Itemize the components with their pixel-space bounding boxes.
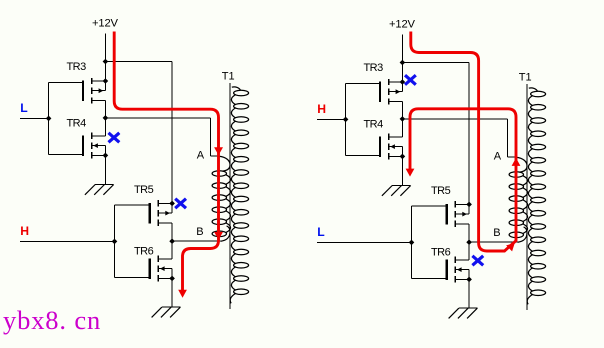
transformer T1 secondary winding (right)	[527, 88, 545, 304]
svg-text:+12V: +12V	[92, 18, 119, 30]
arrow current at B curve (right)	[506, 243, 515, 252]
arrow current into A (left)	[214, 147, 223, 155]
node gate junction TR5/TR6 (left)	[112, 239, 118, 245]
wire TR6 drain to node B (right)	[468, 242, 470, 260]
svg-text:B: B	[196, 226, 203, 238]
wire node B to winding (left)	[172, 240, 221, 242]
transformer T1 primary winding (right)	[509, 157, 527, 242]
svg-text:A: A	[197, 150, 205, 162]
wire TR6 source to ground (left)	[171, 279, 173, 307]
wire L input (left)	[20, 117, 49, 119]
arrow current to TR4 (right)	[406, 169, 415, 177]
mark X on TR5 (left)	[176, 200, 184, 207]
label TR6 (right)	[431, 247, 451, 259]
transistor TR4 (left)	[83, 133, 108, 159]
transistor TR3 (right)	[380, 79, 405, 105]
node +12V (right)	[389, 19, 416, 31]
wire TR3 source to node (left)	[104, 101, 106, 136]
svg-text:TR5: TR5	[431, 185, 451, 197]
svg-text:TR4: TR4	[67, 118, 87, 130]
svg-text:T1: T1	[519, 71, 532, 83]
svg-text:H: H	[317, 102, 326, 116]
svg-text:TR4: TR4	[364, 119, 384, 131]
transformer T1 primary winding (left)	[212, 156, 230, 241]
node TR3/TR4 midpoint (left)	[103, 115, 109, 121]
transistor TR5 (right)	[447, 201, 472, 227]
svg-text:TR3: TR3	[364, 62, 384, 74]
node B junction (left)	[169, 238, 175, 244]
arrow current up to A (right)	[512, 158, 521, 166]
wire +12V rail (right)	[401, 35, 403, 82]
wire midpoint to node A (left)	[105, 117, 210, 119]
node B junction (right)	[466, 239, 472, 245]
node L input (right)	[317, 225, 325, 239]
mark X on TR4 (left)	[110, 134, 118, 141]
svg-text:ybx8. cn: ybx8. cn	[3, 305, 101, 335]
wire H input (right)	[317, 118, 346, 120]
wire rail to TR5 drain (left)	[105, 61, 172, 63]
label TR4 (right)	[364, 119, 384, 131]
arrow current into B (left)	[214, 232, 223, 240]
svg-text:TR6: TR6	[431, 247, 451, 259]
node rail junction (right)	[400, 60, 406, 66]
svg-text:TR3: TR3	[67, 61, 87, 73]
arrow current to ground (left)	[178, 290, 187, 298]
svg-text:TR5: TR5	[134, 184, 154, 196]
mark X on TR6 (right)	[474, 257, 482, 264]
wire TR6 source to ground (right)	[468, 280, 470, 308]
wire TR5 source to node B (right)	[468, 224, 470, 242]
svg-text:TR6: TR6	[134, 246, 154, 258]
ground TR6 (left)	[152, 307, 181, 317]
node gate junction TR5/TR6 (right)	[409, 240, 415, 246]
svg-text:L: L	[20, 101, 28, 115]
wire current path (left)	[114, 32, 218, 291]
transformer T1 core (right)	[526, 84, 528, 310]
ground TR4 (right)	[382, 186, 411, 196]
transformer T1 secondary winding (left)	[230, 87, 248, 303]
label T1 (right)	[519, 71, 532, 83]
transformer T1 core (left)	[229, 83, 231, 309]
svg-text:+12V: +12V	[389, 19, 416, 31]
wire gate loop TR3/TR4 (left)	[48, 82, 50, 154]
node gate junction TR3/TR4 (right)	[343, 117, 349, 123]
label TR3 (right)	[364, 62, 384, 74]
svg-text:T1: T1	[222, 70, 235, 82]
node rail junction (left)	[103, 59, 109, 65]
node H input (right)	[317, 102, 326, 116]
wire +12V rail (left)	[104, 34, 106, 81]
svg-text:L: L	[317, 225, 325, 239]
node gate junction TR3/TR4 (left)	[46, 116, 52, 122]
wire gate loop TR5/TR6 (right)	[412, 206, 446, 279]
transistor TR6 (right)	[447, 257, 472, 283]
wire midpoint to node A (right)	[402, 119, 516, 157]
transistor TR4 (right)	[380, 134, 405, 160]
transistor TR3 (left)	[83, 78, 108, 104]
node TR3/TR4 midpoint (right)	[400, 116, 406, 122]
wire L input (right)	[317, 241, 411, 243]
transistor TR5 (left)	[150, 200, 175, 226]
transistor TR6 (left)	[150, 256, 175, 282]
wire TR3 source to node (right)	[401, 102, 403, 137]
wire current path (right)	[410, 32, 516, 252]
svg-text:B: B	[493, 227, 500, 239]
wire H input (left)	[20, 240, 114, 242]
wire node B to winding (right)	[469, 241, 517, 243]
label TR5 (right)	[431, 185, 451, 197]
wire TR6 drain to node B (left)	[171, 241, 173, 259]
wire TR4 source to ground (left)	[104, 156, 106, 185]
node B (right)	[493, 227, 500, 239]
svg-text:A: A	[494, 151, 502, 163]
node A (right)	[494, 151, 502, 163]
wire TR5 source to node B (left)	[171, 223, 173, 241]
wire gate loop TR3/TR4 (right)	[346, 83, 379, 155]
svg-text:H: H	[20, 224, 29, 238]
wire gate loop TR5/TR6 (left)	[114, 205, 116, 278]
wire TR4 source to ground (right)	[401, 157, 403, 186]
wire rail to TR5 drain (right)	[402, 63, 469, 205]
mark X on TR3 (right)	[406, 76, 414, 83]
ground TR6 (right)	[449, 308, 478, 318]
ground TR4 (left)	[85, 185, 114, 195]
